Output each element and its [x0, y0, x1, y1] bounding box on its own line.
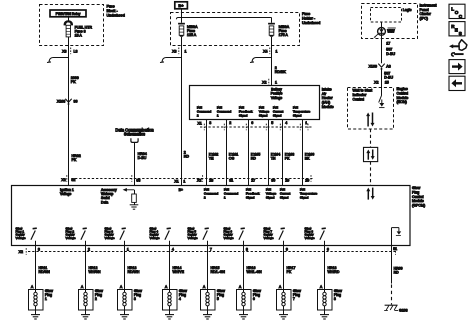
IAH pin number X1-6 [251, 121, 253, 125]
svg-text:PK: PK [71, 80, 76, 84]
svg-text:A: A [81, 285, 84, 289]
wire logic to lamp [381, 22, 383, 28]
wire label 2 RD [184, 150, 190, 158]
svg-text:Module: Module [412, 199, 424, 203]
wire glow plug 6 to ground [243, 310, 245, 315]
off-page connector (boxed arrows) [364, 147, 378, 161]
glow plug pin number 2 [88, 248, 90, 252]
svg-text:Intake: Intake [322, 87, 332, 91]
wire label HB04 D-BU [138, 152, 147, 160]
svg-text:L3: L3 [74, 49, 78, 53]
internal ground [130, 205, 139, 209]
ground glow plug 6 [239, 315, 248, 319]
wire label IC165 RD [251, 153, 261, 161]
IPC pin 17 [386, 42, 390, 46]
svg-text:X109: X109 [369, 64, 377, 68]
svg-text:3: 3 [134, 297, 136, 301]
svg-text:Data: Data [101, 200, 108, 204]
wire glow plug 5 to ground [207, 310, 209, 315]
GPCM IAH pin label 1 [204, 188, 219, 200]
svg-text:A: A [279, 285, 282, 289]
svg-text:1: 1 [127, 248, 129, 252]
svg-text:WH/L-GN: WH/L-GN [247, 270, 263, 274]
toolbar button next [449, 60, 465, 74]
svg-text:Voltage: Voltage [264, 236, 274, 240]
svg-text:RD: RD [251, 157, 257, 161]
glow plug 3 terminal A [120, 285, 123, 289]
svg-text:7: 7 [210, 248, 212, 252]
fuse block underhood label [107, 5, 125, 18]
svg-text:Voltage: Voltage [16, 236, 26, 240]
glow plug 7 [277, 289, 302, 310]
wire label HR13 RD/WH [128, 266, 140, 274]
wire IAH 5 to GPCM 30 [268, 120, 270, 186]
svg-text:4: 4 [179, 297, 181, 301]
svg-text:Control: Control [412, 195, 424, 199]
connector X3 terminal 1 [172, 48, 186, 55]
svg-text:5: 5 [271, 121, 273, 125]
svg-text:29: 29 [285, 179, 289, 183]
dashed wire off-page connector to GPCM [370, 162, 372, 186]
wire label IC161 OG [229, 153, 239, 161]
svg-text:8: 8 [334, 297, 336, 301]
toolbar button RES [449, 22, 465, 37]
svg-text:WW: WW [387, 28, 394, 33]
connector X4 terminal 1 [263, 48, 277, 55]
svg-text:RD/WH: RD/WH [128, 270, 140, 274]
wire glow plug 3 to ground [124, 310, 126, 315]
glow plug 1 supply voltage pin label [16, 226, 26, 239]
glow plug 2 supply voltage pin label [66, 226, 76, 239]
svg-text:Air: Air [322, 92, 327, 96]
data communication schematics reference [115, 128, 154, 143]
GPCM IAH pin label 6 [300, 188, 318, 200]
glow plug 8 terminal A [320, 285, 323, 289]
signal direction arrow [123, 188, 134, 192]
svg-text:D-BU: D-BU [138, 156, 147, 160]
glow plug pin number 4 [172, 248, 174, 252]
svg-text:53: 53 [136, 179, 140, 183]
svg-text:52: 52 [71, 178, 75, 182]
svg-text:A: A [203, 285, 206, 289]
svg-text:B+: B+ [179, 188, 183, 192]
svg-text:31: 31 [229, 179, 233, 183]
svg-text:PK: PK [72, 158, 77, 162]
toolbar pan arrows icon [449, 40, 467, 56]
svg-text:Command: Command [197, 109, 212, 113]
svg-text:15 A: 15 A [75, 33, 83, 37]
GPCM pin number X2-31 [229, 179, 233, 183]
wire label 2099 PK [71, 76, 79, 84]
svg-text:(IPC): (IPC) [420, 17, 428, 21]
svg-text:A: A [120, 285, 123, 289]
logic label [403, 8, 412, 12]
svg-text:PK: PK [285, 157, 290, 161]
IAH pin label Voltage Signal [259, 105, 270, 117]
wire label HR11 RD/GN [39, 266, 51, 274]
svg-text:175 A: 175 A [279, 33, 289, 37]
wire glow plug 8 to ground [324, 310, 326, 315]
GPCM IAH pin label 2 [224, 188, 239, 200]
svg-text:5: 5 [217, 297, 219, 301]
svg-text:Signal: Signal [273, 114, 282, 118]
svg-text:RD/BK: RD/BK [275, 70, 287, 74]
svg-text:6: 6 [327, 248, 329, 252]
wire GPCM to glow plug 2 [85, 246, 87, 289]
GPCM pin number X2-26 [305, 179, 309, 183]
svg-text:Glow: Glow [412, 186, 421, 190]
svg-text:A: A [31, 285, 34, 289]
svg-text:Underhood: Underhood [107, 13, 125, 17]
svg-text:L: L [451, 6, 454, 11]
svg-text:1: 1 [276, 49, 278, 53]
svg-text:Command: Command [224, 192, 239, 196]
svg-text:X4: X4 [263, 49, 267, 53]
GPCM pin X2-52 [71, 178, 75, 182]
GPCM pin number X2-29 [285, 179, 289, 183]
svg-text:2: 2 [88, 248, 90, 252]
wire label IC164 TN [271, 153, 281, 161]
svg-text:(GPCM): (GPCM) [412, 204, 425, 208]
svg-text:17: 17 [386, 42, 390, 46]
svg-text:X1: X1 [174, 180, 178, 184]
svg-text:1: 1 [185, 49, 187, 53]
wire label HR15 RD/L-GN [211, 266, 226, 274]
wire X109 to ECM [381, 68, 383, 87]
svg-text:RD/L-GN: RD/L-GN [211, 270, 226, 274]
svg-text:7: 7 [293, 297, 295, 301]
svg-text:Voltage: Voltage [66, 236, 76, 240]
svg-text:Wait to Start: Wait to Start [353, 89, 373, 93]
svg-text:Signal: Signal [293, 114, 302, 118]
ground G108 [384, 305, 407, 312]
GPCM output driver switch 1 [31, 228, 37, 245]
wire label 507 D-BU (upper) [386, 48, 395, 56]
svg-text:Signal: Signal [300, 196, 309, 200]
svg-text:27: 27 [251, 179, 255, 183]
GPCM label [412, 186, 425, 208]
inline connector X108 pin 36 [57, 99, 78, 105]
wire label IC166 BK [305, 153, 315, 161]
svg-text:Voltage: Voltage [188, 236, 198, 240]
glow plug 4 supply voltage pin label [150, 226, 160, 239]
svg-text:Control: Control [397, 91, 409, 95]
svg-text:Underhood: Underhood [302, 21, 320, 25]
svg-text:4: 4 [172, 248, 174, 252]
svg-text:Command: Command [204, 192, 219, 196]
IAH pin number X1-4 [285, 121, 287, 125]
wire label HR16 WH/L-GN [247, 266, 263, 274]
svg-text:Command: Command [217, 109, 232, 113]
glow plug 3 supply voltage pin label [105, 226, 115, 239]
fuse holder underhood label [302, 12, 320, 25]
lead hook X4-1 [250, 58, 272, 63]
svg-text:Logic: Logic [403, 8, 412, 12]
glow plug pin number 6 [327, 248, 329, 252]
svg-text:WH/YE: WH/YE [173, 270, 185, 274]
svg-text:15: 15 [385, 81, 389, 85]
svg-text:Voltage: Voltage [271, 96, 282, 100]
svg-text:A: A [165, 285, 168, 289]
lead hook X3 [47, 58, 69, 63]
GPCM internal ground link pin 51 [392, 228, 402, 246]
svg-text:Voltage: Voltage [60, 192, 71, 196]
svg-text:X3: X3 [62, 49, 66, 53]
GPCM output driver switch 8 [320, 228, 326, 245]
wire GPCM to glow plug 7 [283, 246, 285, 289]
IAH pin label Temperature Signal [293, 105, 311, 117]
glow plug 7 supply voltage pin label [264, 226, 274, 239]
svg-text:X3: X3 [172, 49, 176, 53]
GPCM pin X2-53 [132, 175, 141, 183]
svg-text:X2: X2 [19, 250, 23, 254]
GPCM continuation arrows [366, 188, 374, 200]
ground glow plug 3 [120, 315, 129, 319]
wait to start indicator control label [353, 89, 373, 102]
GPCM output driver switch 3 [120, 228, 126, 245]
svg-text:9: 9 [286, 248, 288, 252]
svg-text:Signal: Signal [246, 196, 255, 200]
svg-text:Holder -: Holder - [302, 16, 316, 20]
svg-text:Heater: Heater [322, 96, 334, 100]
wire IAH 6 to GPCM 27 [248, 120, 250, 186]
connector X2 pin 1 of IAH [262, 79, 277, 86]
wire pin 51 down [391, 246, 393, 284]
svg-text:Engine: Engine [397, 87, 408, 91]
connector X3 terminal L3 [62, 48, 77, 55]
svg-text:X1: X1 [198, 121, 202, 125]
svg-text:Voltage: Voltage [224, 236, 234, 240]
toolbar button LOC [449, 4, 465, 19]
wire IAH 2 to GPCM 31 [226, 120, 228, 186]
svg-text:2: 2 [229, 121, 231, 125]
svg-text:1: 1 [45, 297, 47, 301]
svg-text:4: 4 [285, 121, 287, 125]
wire label HB09 RD [394, 267, 403, 275]
B+ pin label [179, 188, 183, 192]
wire relay to fuse [68, 17, 70, 23]
fuse F8 FUEL HTR 15A [64, 20, 93, 37]
wire label HR17 PK [287, 266, 296, 274]
ECM low-side driver switch [379, 87, 385, 108]
svg-text:PWR/TRN Relay: PWR/TRN Relay [56, 12, 81, 16]
svg-text:RD: RD [184, 155, 190, 159]
glow plug 8 [318, 289, 343, 310]
wire label 2 RD/BK [275, 66, 287, 74]
IAH pin number X1-2 [229, 121, 231, 125]
wire GPCM to glow plug 8 [324, 246, 326, 289]
wire fuse8 to GPCM pin 52 [68, 37, 70, 186]
inline connector X109 terminal A3 [369, 64, 391, 70]
svg-text:3: 3 [209, 121, 211, 125]
glow plug 5 [201, 289, 226, 310]
svg-text:28: 28 [209, 179, 213, 183]
wire IAH 4 to GPCM 29 [282, 120, 284, 186]
svg-text:Panel: Panel [420, 8, 429, 12]
toolbar button previous [449, 76, 465, 90]
GPCM output driver switch 5 [203, 228, 209, 245]
GPCM output driver switch 4 [165, 228, 171, 245]
IAH pin number X1-1 [305, 121, 307, 125]
glow plug 6 supply voltage pin label [224, 226, 234, 239]
svg-text:2: 2 [204, 196, 206, 200]
fuse holder underhood (dashed enclosure) [171, 13, 300, 46]
svg-text:51: 51 [393, 247, 397, 251]
svg-text:Fuse: Fuse [302, 12, 310, 16]
wire B+ to fuse holder [176, 9, 271, 23]
svg-text:PK: PK [287, 270, 292, 274]
glow plug pin number 3 [38, 248, 40, 252]
svg-text:125 A: 125 A [187, 33, 197, 37]
fuse MEGA 125A [178, 23, 198, 37]
glow plug 6 [237, 289, 262, 310]
GPCM pin X1-1 [174, 180, 185, 184]
row end bracket [310, 175, 312, 182]
wire GPCM to glow plug 5 [207, 246, 209, 289]
glow plug 8 supply voltage pin label [305, 226, 315, 239]
fuse MEGA 175A [268, 23, 290, 37]
svg-text:30: 30 [271, 179, 275, 183]
lead hook X3-1 [160, 58, 182, 63]
svg-text:Signal: Signal [280, 196, 289, 200]
svg-text:1: 1 [217, 114, 219, 118]
IAH pin number X1-3 [209, 121, 211, 125]
svg-text:X2: X2 [262, 81, 266, 85]
wire GPCM to glow plug 6 [243, 246, 245, 289]
svg-text:Voltage: Voltage [305, 236, 315, 240]
GPCM output driver switch 7 [279, 228, 285, 245]
wire GPCM to glow plug 3 [124, 246, 126, 289]
GPCM IAH pin label 5 [280, 188, 290, 200]
wire glow plug 4 to ground [169, 310, 171, 315]
GPCM output driver switch 6 [239, 228, 245, 245]
svg-text:26: 26 [305, 179, 309, 183]
svg-text:TN: TN [271, 157, 276, 161]
dashed wire ECM to off-page connector [370, 129, 372, 147]
svg-text:Block -: Block - [107, 9, 119, 13]
wire MEGA125 to GPCM X1-1 [181, 37, 183, 186]
svg-text:E: E [455, 28, 458, 33]
svg-text:YE: YE [209, 157, 214, 161]
glow plug 1 [29, 289, 54, 310]
GPCM pin number X2-28 [209, 179, 213, 183]
svg-text:OG: OG [229, 157, 235, 161]
IAH pin label Feedback Signal [239, 105, 253, 117]
svg-text:Plug: Plug [412, 190, 419, 194]
svg-text:WH/GN: WH/GN [89, 270, 102, 274]
wire label HR12 WH/GN [89, 266, 102, 274]
ignition 1 voltage pin label [60, 188, 74, 196]
svg-text:WH/RD: WH/RD [328, 270, 340, 274]
svg-text:1: 1 [305, 121, 307, 125]
svg-text:3: 3 [38, 248, 40, 252]
glow plug 6 terminal A [239, 285, 242, 289]
wire glow plug 2 to ground [85, 310, 87, 315]
intake air heater module box [190, 86, 320, 120]
svg-text:X2: X2 [197, 179, 201, 183]
svg-text:1: 1 [275, 81, 277, 85]
glow plug 4 terminal A [165, 285, 168, 289]
svg-text:Schematics: Schematics [124, 132, 145, 137]
GPCM pin number X2-27 [251, 179, 255, 183]
svg-text:Indicator: Indicator [353, 93, 368, 97]
glow plug 7 terminal A [279, 285, 282, 289]
GPCM connector row X2 (top) [61, 175, 313, 182]
svg-text:BK: BK [305, 157, 310, 161]
svg-text:X2: X2 [374, 81, 378, 85]
svg-text:6: 6 [251, 121, 253, 125]
svg-text:D-BU: D-BU [384, 75, 393, 79]
battery B+ terminal [175, 2, 188, 9]
svg-text:A: A [320, 285, 323, 289]
glow plug 2 terminal A [81, 285, 84, 289]
wire label HB02 PK [72, 154, 81, 162]
svg-text:Control: Control [353, 97, 365, 101]
svg-text:(IAH): (IAH) [322, 101, 330, 105]
glow plug indicator glyph [387, 28, 396, 33]
glow plug 3 [118, 289, 143, 310]
IPC label [420, 3, 437, 20]
glow plug 2 [79, 289, 104, 310]
wire glow plug 7 to ground [283, 310, 285, 315]
ground glow plug 4 [165, 315, 174, 319]
svg-text:8: 8 [246, 248, 248, 252]
wire data comm to GPCM pin 53 [134, 143, 136, 186]
svg-text:Signal: Signal [266, 196, 275, 200]
GPCM IAH pin label 4 [266, 188, 277, 200]
svg-text:Voltage: Voltage [105, 236, 115, 240]
glow plug 5 terminal A [203, 285, 206, 289]
svg-text:1: 1 [183, 180, 185, 184]
IPC logic block (dashed) [371, 8, 402, 23]
dashed wire to G108 [391, 285, 393, 305]
wire MEGA175 to IAH module [271, 37, 273, 86]
accessory wakeup serial data pin label [101, 188, 117, 205]
svg-text:B+: B+ [178, 3, 184, 8]
wait-to-start indicator lamp [374, 28, 386, 38]
IAH connector row X1 [198, 121, 313, 130]
svg-text:D-BU: D-BU [386, 52, 395, 56]
wire lamp to X109 [381, 35, 383, 63]
relay PWR/TRN Relay [50, 10, 86, 17]
wire IAH 1 to GPCM 26 [302, 120, 304, 186]
glow plug 5 supply voltage pin label [188, 226, 198, 239]
svg-text:RD/GN: RD/GN [39, 270, 51, 274]
instrument panel cluster (dashed enclosure) [362, 4, 418, 39]
glow plug 1 terminal A [31, 285, 34, 289]
svg-text:2: 2 [95, 297, 97, 301]
svg-text:Module: Module [397, 96, 409, 100]
ECM continuation arrows [366, 113, 374, 127]
svg-text:Instrument: Instrument [420, 3, 437, 7]
ground glow plug 7 [279, 315, 288, 319]
IAH pin label Command 1 [217, 105, 232, 117]
battery positive voltage pin label [271, 87, 283, 99]
wire GPCM to glow plug 4 [169, 246, 171, 289]
GPCM IAH pin label 3 [246, 188, 260, 200]
IAH module label [322, 87, 334, 109]
ground glow plug 5 [203, 315, 212, 319]
svg-text:S: S [459, 31, 462, 36]
glow plug 4 [163, 289, 188, 310]
engine control module (dashed enclosure) [348, 88, 394, 130]
svg-text:(ECM): (ECM) [397, 100, 407, 104]
glow plug control module box [12, 186, 411, 246]
glow plug pin number 9 [286, 248, 288, 252]
wire IAH 3 to GPCM 28 [206, 120, 208, 186]
svg-text:2: 2 [197, 114, 199, 118]
svg-text:Signal: Signal [239, 114, 248, 118]
